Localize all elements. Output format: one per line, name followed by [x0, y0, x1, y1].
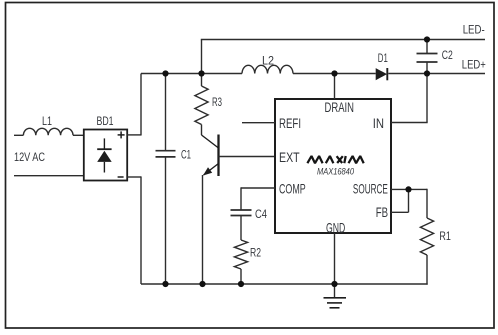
node C1 top: [162, 70, 168, 76]
pin FB label: [376, 204, 388, 220]
op-amp U1 MAX16840 box: [275, 99, 391, 233]
node R2 bottom: [238, 281, 244, 287]
svg-text:MAX16840: MAX16840: [317, 167, 354, 177]
svg-text:L2: L2: [262, 56, 274, 68]
svg-text:DRAIN: DRAIN: [325, 99, 355, 115]
svg-text:BD1: BD1: [97, 116, 114, 128]
diode D1: [376, 53, 388, 80]
wire D1 to LED+: [388, 73, 485, 75]
bridge rectifier BD1: [84, 116, 127, 181]
wire AC input top terminal: [14, 134, 23, 136]
wire C4 to R2: [240, 216, 242, 241]
svg-text:R3: R3: [212, 97, 222, 109]
label MAX16840: [317, 167, 354, 177]
wire top rail riser: [201, 40, 203, 74]
wire SOURCE: [391, 189, 427, 218]
wire FB: [391, 189, 409, 212]
pin IN label: [373, 115, 384, 131]
svg-text:LED-: LED-: [463, 25, 485, 37]
node C2 top: [424, 36, 430, 42]
node emitter bottom: [199, 281, 205, 287]
ground symbol: [324, 284, 347, 308]
svg-text:C1: C1: [181, 150, 191, 162]
label LED+: [462, 60, 486, 72]
pin SOURCE label: [353, 181, 388, 197]
transistor Q1: [202, 135, 276, 285]
svg-text:EXT: EXT: [279, 149, 300, 165]
svg-text:C4: C4: [255, 209, 267, 221]
resistor R1: [420, 218, 451, 255]
svg-text:COMP: COMP: [279, 181, 306, 197]
capacitor C2: [417, 40, 453, 74]
wire top rail: [201, 39, 485, 41]
node R3 top: [198, 70, 204, 76]
svg-text:REFI: REFI: [279, 115, 301, 131]
wire BD1 plus output: [127, 74, 141, 136]
svg-text:L1: L1: [42, 116, 52, 128]
svg-text:LED+: LED+: [462, 60, 486, 72]
inductor L1: [23, 116, 73, 135]
capacitor C4: [231, 209, 268, 221]
svg-text:IN: IN: [373, 115, 384, 131]
wire L1 to BD1: [73, 134, 84, 136]
wire main rail left: [141, 73, 242, 75]
svg-text:12V AC: 12V AC: [14, 152, 45, 164]
inductor L2: [242, 56, 293, 74]
wire R1 to rail: [335, 255, 428, 285]
node C2 bottom: [424, 70, 430, 76]
svg-text:C2: C2: [442, 50, 453, 62]
svg-text:FB: FB: [376, 204, 388, 220]
logo MAXIM: [307, 156, 363, 163]
node GND rail: [331, 281, 337, 287]
node SOURCE junction: [405, 186, 411, 192]
label 12V AC: [14, 152, 45, 164]
wire IN: [391, 74, 428, 123]
wire COMP: [241, 187, 275, 210]
pin COMP label: [279, 181, 306, 197]
pin EXT label: [279, 149, 300, 165]
wire BD1 minus output: [127, 176, 141, 284]
node DRAIN rail: [331, 70, 337, 76]
svg-text:D1: D1: [378, 53, 388, 65]
wire AC input bottom terminal: [14, 175, 84, 177]
wire REFI stub: [242, 122, 275, 124]
svg-text:R1: R1: [439, 231, 451, 243]
resistor R2: [234, 240, 261, 269]
capacitor C1: [156, 74, 192, 285]
wire GND pin: [334, 233, 336, 284]
pin GND label: [326, 219, 345, 235]
wire DRAIN: [334, 74, 336, 100]
wire bottom rail: [141, 283, 335, 285]
resistor R3: [195, 74, 222, 136]
label LED-: [463, 25, 485, 37]
pin REFI label: [279, 115, 301, 131]
wire R2 to rail: [240, 269, 242, 284]
node C1 bottom: [162, 281, 168, 287]
pin DRAIN label: [325, 99, 355, 115]
svg-text:SOURCE: SOURCE: [353, 181, 388, 197]
svg-text:GND: GND: [326, 219, 345, 235]
svg-text:R2: R2: [250, 248, 261, 260]
wire L2 to D1: [293, 73, 376, 75]
